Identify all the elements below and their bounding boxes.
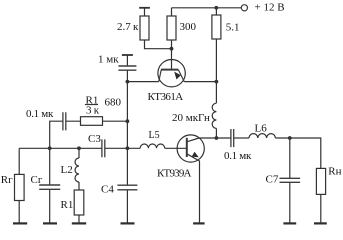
svg-text:0.1 мк: 0.1 мк <box>26 108 54 120</box>
svg-text:+ 12 В: + 12 В <box>255 2 285 14</box>
svg-text:2.7 к: 2.7 к <box>117 21 139 33</box>
svg-text:Rн: Rн <box>328 165 341 177</box>
svg-text:20 мкГн: 20 мкГн <box>172 112 210 124</box>
svg-text:Cг: Cг <box>31 174 43 186</box>
svg-text:0.1 мк: 0.1 мк <box>224 150 252 162</box>
svg-text:C4: C4 <box>101 184 114 196</box>
svg-text:L6: L6 <box>255 123 268 135</box>
svg-text:3 к: 3 к <box>86 104 100 116</box>
svg-text:Rг: Rг <box>1 174 13 186</box>
svg-text:1 мк: 1 мк <box>98 53 119 65</box>
svg-text:R1: R1 <box>61 199 74 211</box>
svg-text:5.1: 5.1 <box>226 22 240 34</box>
svg-text:C7: C7 <box>266 174 279 186</box>
svg-text:КТ939А: КТ939А <box>157 168 192 180</box>
svg-text:C3: C3 <box>88 133 101 145</box>
svg-text:L2: L2 <box>61 164 73 176</box>
svg-text:300: 300 <box>180 21 197 33</box>
svg-text:КТ361А: КТ361А <box>148 91 184 103</box>
svg-text:L5: L5 <box>149 130 160 141</box>
svg-text:680: 680 <box>105 96 122 108</box>
